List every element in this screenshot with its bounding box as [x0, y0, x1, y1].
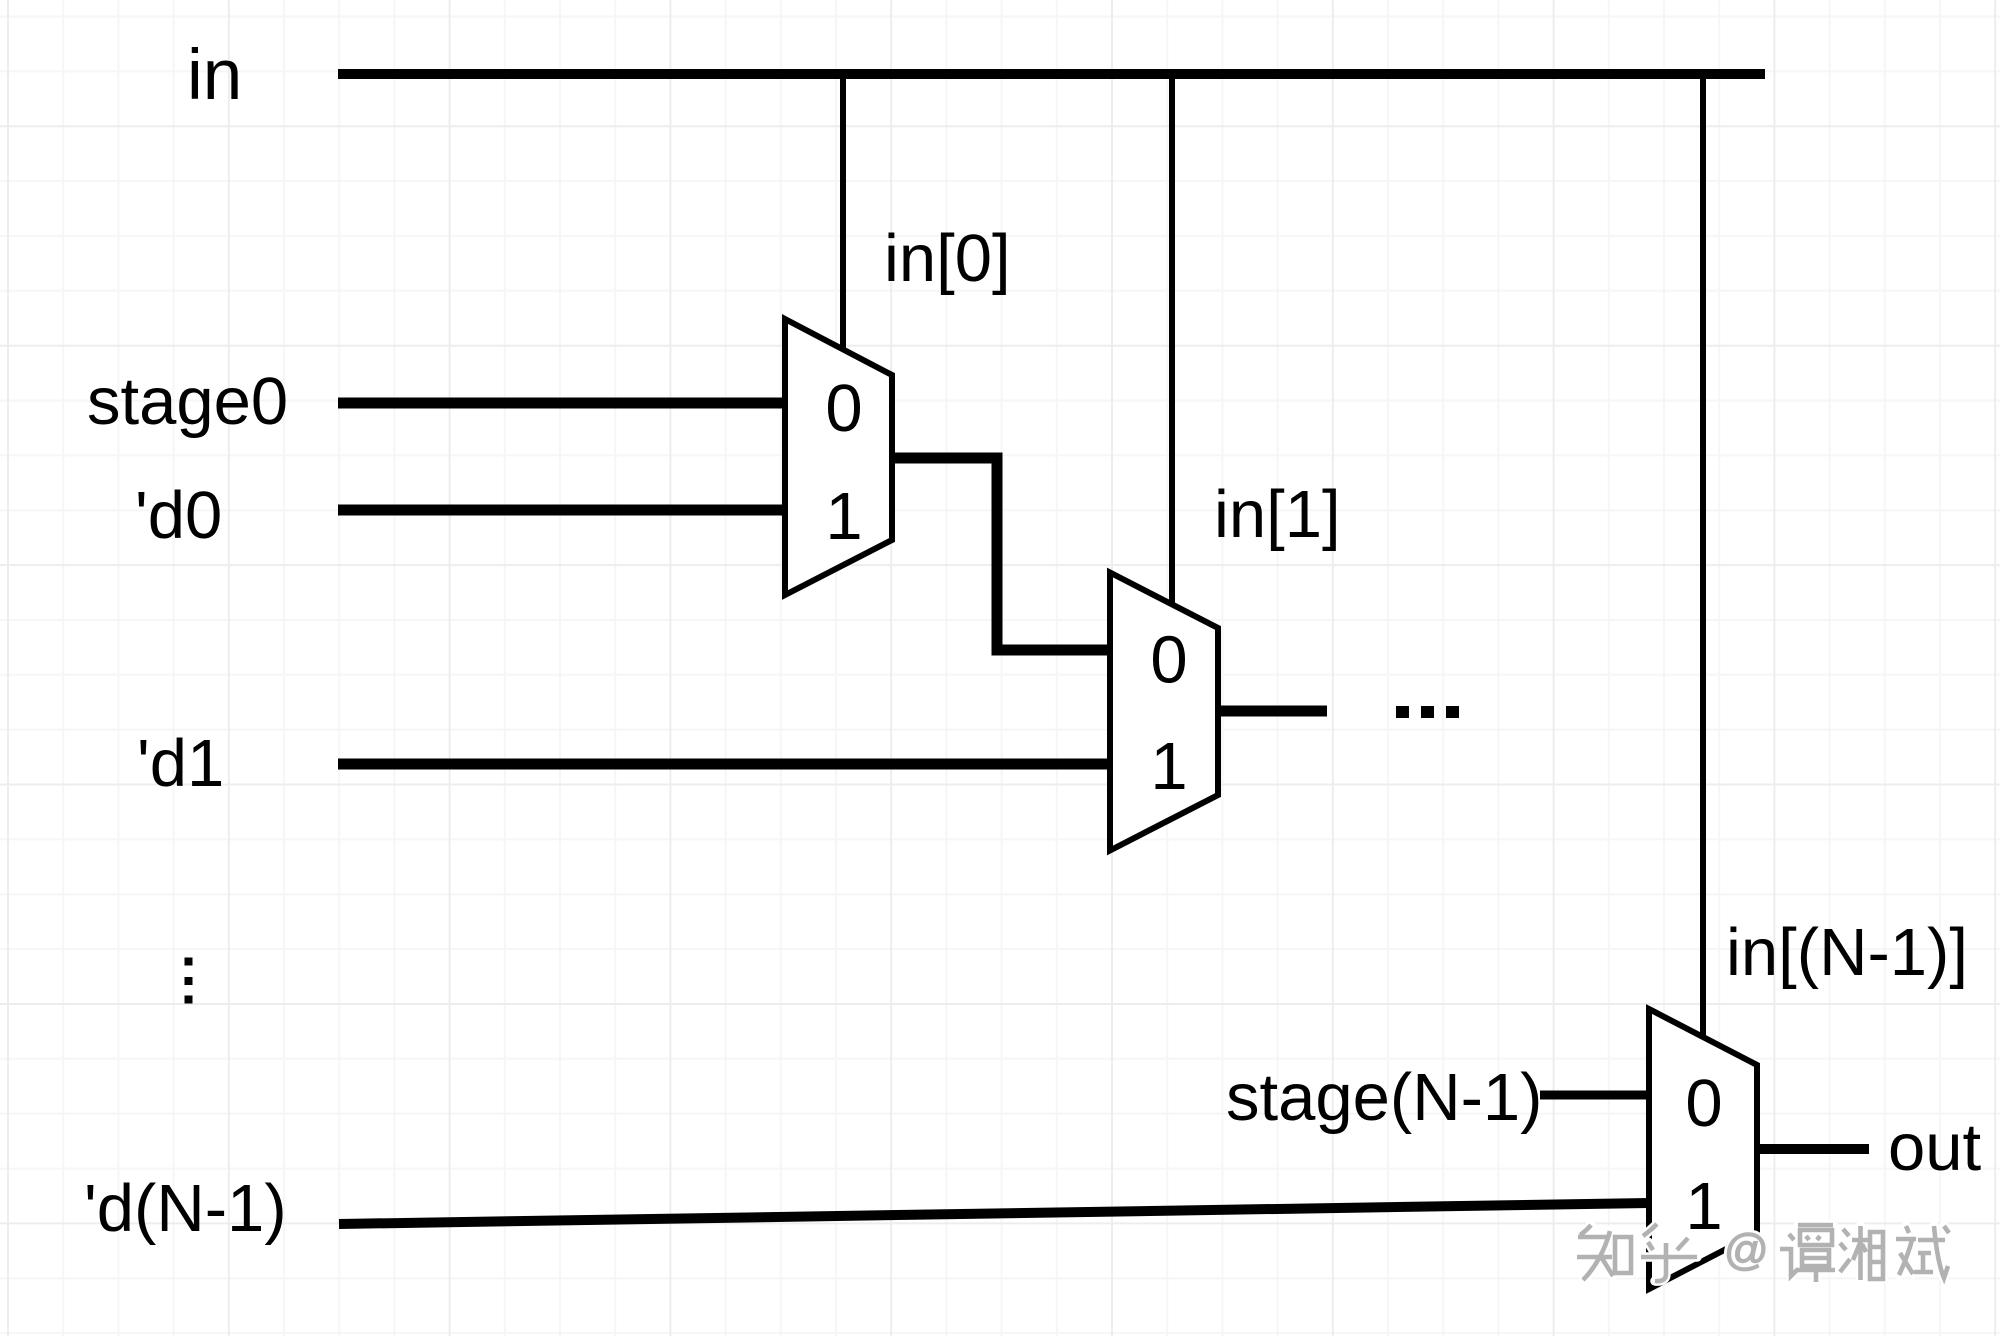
svg-text:stage(N-1): stage(N-1)	[1226, 1060, 1542, 1135]
svg-text:'d0: 'd0	[135, 478, 222, 553]
svg-text:out: out	[1888, 1110, 1982, 1185]
vertical ellipsis (rows continue)	[185, 958, 193, 1004]
wire: 'd0 to mux U1 input 1	[338, 505, 785, 516]
wire: stage(N-1) to mux U3 input 0	[1540, 1091, 1649, 1100]
svg-text:stage0: stage0	[87, 364, 288, 439]
wire: mux U1 output elbow to mux U2 input 0	[892, 458, 1110, 650]
svg-text:1: 1	[825, 479, 862, 554]
svg-text:in[1]: in[1]	[1214, 477, 1341, 552]
wire: in[1] select drop	[1169, 79, 1175, 604]
wire: 'd(N-1) to mux U3 input 1 (slanted)	[339, 1203, 1649, 1224]
svg-text:@: @	[1724, 1226, 1769, 1275]
svg-text:1: 1	[1685, 1169, 1722, 1244]
wire: 'd1 to mux U2 input 1	[338, 759, 1110, 770]
wire: out from mux U3	[1757, 1144, 1869, 1154]
mux U3 (2:1 mux, in[(N-1)])	[1649, 1009, 1757, 1289]
wire: in bus	[338, 69, 1765, 79]
wire: stage0 to mux U1 input 0	[338, 398, 785, 409]
mux U1 (2:1 mux, in[0])	[785, 319, 892, 595]
wire: in[(N-1)] select drop	[1700, 79, 1706, 1039]
watermark: Zhihu @ author (drawn gray strokes with white casing)	[1577, 1224, 1949, 1282]
svg-text:in[(N-1)]: in[(N-1)]	[1726, 915, 1968, 990]
svg-text:'d(N-1): 'd(N-1)	[84, 1171, 287, 1246]
svg-text:0: 0	[1150, 623, 1187, 698]
svg-text:0: 0	[1685, 1066, 1722, 1141]
svg-text:0: 0	[825, 371, 862, 446]
svg-text:'d1: 'd1	[137, 726, 224, 801]
svg-text:in[0]: in[0]	[884, 221, 1011, 296]
mux U2 (2:1 mux, in[1])	[1110, 573, 1218, 851]
wire: in[0] select drop	[840, 79, 846, 348]
svg-text:in: in	[187, 36, 242, 115]
svg-text:1: 1	[1150, 729, 1187, 804]
ellipsis dots between mux U2 and mux U3	[1396, 706, 1459, 718]
wire: mux U2 output	[1218, 706, 1327, 717]
